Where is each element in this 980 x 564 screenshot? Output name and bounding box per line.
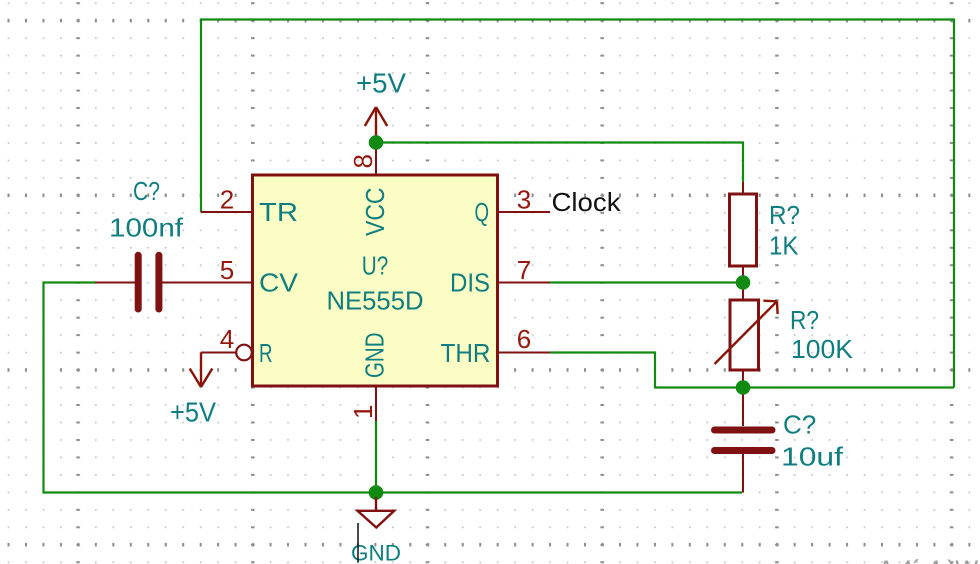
svg-text:U?: U? (362, 251, 389, 281)
svg-text:R: R (259, 338, 273, 368)
junction at VCC (369, 135, 384, 150)
svg-text:4: 4 (220, 324, 234, 354)
resistor R1 1K body (730, 194, 757, 266)
svg-text:1K: 1K (769, 231, 799, 261)
svg-text:7: 7 (517, 255, 531, 285)
svg-text:DIS: DIS (450, 268, 490, 298)
pin 5 CV stub (162, 282, 252, 284)
svg-text:1: 1 (348, 405, 378, 419)
svg-text:C?: C? (783, 410, 816, 440)
pin 4 R stub (201, 352, 236, 354)
pin 7 DIS stub (498, 282, 550, 284)
svg-text:THR: THR (441, 338, 491, 368)
wire top feedback loop (201, 20, 954, 388)
wire GND pin vertical (375, 420, 377, 493)
wire CV left (44, 283, 743, 493)
svg-text:10uf: 10uf (781, 442, 844, 472)
pin 8 VCC stub (375, 143, 377, 175)
capacitor C1 left lead (95, 282, 135, 284)
junction at DIS divider (736, 275, 751, 290)
pin 1 GND stub (375, 386, 377, 421)
svg-text:+5V: +5V (170, 397, 216, 428)
wire THR to right rail (550, 353, 954, 388)
svg-text:100K: 100K (791, 334, 854, 364)
svg-text:R?: R? (790, 305, 819, 335)
op-amp U1 NE555D body (253, 175, 498, 386)
svg-text:NE555D: NE555D (327, 286, 424, 316)
svg-text:GND: GND (360, 333, 390, 379)
svg-text:8: 8 (348, 154, 378, 168)
pin 3 Q stub (498, 211, 550, 213)
capacitor C2 10uf plates (715, 430, 773, 451)
capacitor C1 100nf plates (138, 255, 159, 309)
pin 6 THR stub (498, 352, 550, 354)
svg-text:6: 6 (517, 324, 531, 354)
wire VCC horizontal (376, 143, 743, 183)
svg-text:C?: C? (133, 176, 160, 206)
potentiometer R2 body (730, 300, 759, 370)
svg-text:A 4´ 4 )W(: A 4´ 4 )W( (878, 556, 980, 564)
svg-text:R?: R? (769, 200, 800, 230)
svg-text:Clock: Clock (552, 187, 622, 217)
svg-text:CV: CV (259, 268, 299, 298)
svg-text:TR: TR (259, 197, 298, 227)
power +5V at pin 4 (pointing down) (190, 353, 213, 388)
wire DIS to junction (550, 281, 743, 283)
svg-text:100nf: 100nf (109, 213, 184, 243)
svg-text:2: 2 (220, 185, 234, 215)
svg-text:3: 3 (517, 185, 531, 215)
junction at GND rail (369, 485, 384, 500)
svg-text:+5V: +5V (356, 68, 406, 99)
resistor R1 1K leads (742, 182, 744, 194)
potentiometer arrow (715, 301, 778, 364)
edit cursor line (357, 523, 359, 563)
svg-text:5: 5 (220, 255, 234, 285)
capacitor C2 leads (742, 388, 744, 427)
pin 4 inversion bubble (236, 345, 252, 361)
ground symbol (358, 497, 395, 528)
potentiometer R2 leads (742, 283, 744, 300)
pin 2 TR stub (201, 211, 252, 213)
power +5V top symbol (365, 107, 387, 142)
svg-text:VCC: VCC (360, 188, 390, 237)
junction below potentiometer (736, 380, 751, 395)
svg-text:Q: Q (475, 197, 490, 227)
